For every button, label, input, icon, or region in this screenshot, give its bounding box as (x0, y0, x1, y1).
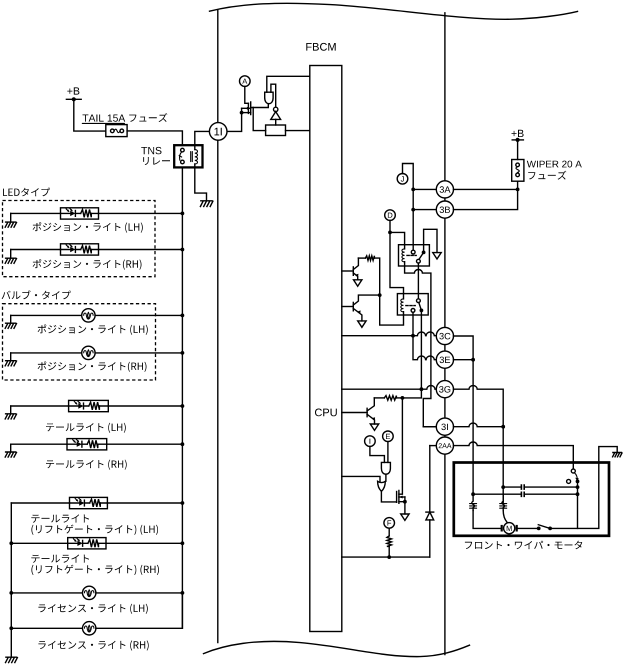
front wiper motor box (454, 463, 609, 536)
LED lamp tail light (RH) (67, 439, 107, 450)
wire node J to relay K1 contact (403, 164, 414, 245)
connector 1I (209, 123, 227, 141)
bulb position light (LH) (82, 309, 95, 322)
wire license LH to bus (96, 592, 182, 594)
junction 3I-503 (501, 425, 505, 429)
wire left bus to liftgate RH lamp (11, 542, 67, 544)
wire FBCM bottom to diode (342, 556, 430, 558)
capacitor C2 wire (473, 493, 577, 495)
TNS relay label (141, 147, 161, 154)
MOSFET Q1 channel (250, 102, 252, 115)
bulb position light (RH) (82, 346, 95, 359)
wire R3 to 3G junction (402, 389, 421, 398)
LED lamp position light (RH) (61, 244, 99, 255)
junction J-line at 3B (411, 208, 415, 212)
relay K1 coil (404, 245, 406, 249)
LED lamp position light (LH) (61, 208, 99, 219)
wire node I to AND gate (370, 446, 385, 462)
junction left bus license RH (9, 626, 13, 630)
wire FBCM to 3C (342, 332, 437, 336)
wire K1 armature to relay K2 contact (417, 263, 419, 299)
wire liftgate-license left bus (10, 503, 12, 657)
junction C2-473 (471, 492, 475, 496)
WIPER 20A fuse label (527, 161, 582, 168)
wire TAIL fuse to TNS relay switch (127, 131, 182, 145)
relay K2 fixed contact (411, 309, 415, 313)
fuse WIPER 20A (512, 160, 524, 182)
choke L1 (470, 504, 477, 509)
junction Q2-Q3 collectors (378, 293, 382, 297)
junction on lamp bus (181, 351, 185, 355)
relay K2 armature (419, 303, 422, 311)
node E (383, 431, 394, 442)
park switch open contact (567, 479, 571, 483)
resistor R4 (387, 536, 392, 547)
capacitor C1 (521, 484, 524, 490)
TAIL 15A fuse label (83, 115, 126, 122)
module ground at Q4 (370, 424, 378, 430)
resistor R3 (374, 397, 384, 399)
wire node A to MOSFET Q1 gate (245, 86, 249, 103)
junction R3-drain (401, 396, 405, 400)
wire ground to LED LH (11, 212, 61, 214)
wire U1 input from FBCM (267, 76, 310, 92)
connector 3I (436, 418, 453, 435)
label position bulb (RH) (38, 361, 147, 372)
bulb position lamps dashed box (3, 304, 156, 380)
relay TNS box (174, 145, 202, 167)
wire ground to tail RH (11, 443, 67, 445)
wire Q1 drain to driver gate (251, 104, 269, 108)
capacitor C1 wire (503, 486, 577, 488)
bulb license light (RH) (83, 622, 96, 635)
wire Q1 source to connector 1I (227, 108, 241, 131)
CPU label (315, 409, 337, 417)
label position light (LH) (33, 222, 143, 233)
junction left bus license LH (9, 591, 13, 595)
wire D to relay K2 coil (390, 232, 404, 293)
wire K1 common to module ground (424, 229, 437, 252)
junction park-cap2 (576, 492, 580, 496)
node F (384, 518, 395, 529)
label tail light liftgate RH line1 (31, 555, 89, 563)
wire LED RH to bus (99, 249, 183, 251)
park switch common contact (571, 469, 575, 473)
junction left bus liftgate RH (9, 541, 13, 545)
wire node E to AND gate (387, 442, 389, 463)
MOSFET Q5 body arrow (399, 496, 405, 498)
wire ground to tail LH (11, 405, 69, 407)
relay K2 box (397, 294, 428, 315)
wire license RH to bus (96, 593, 182, 628)
wire liftgate RH to bus (106, 542, 182, 544)
TNS relay coil (191, 152, 193, 162)
wire FBCM to 3G (342, 386, 437, 390)
wire 3I to 503-line (454, 423, 504, 427)
junction park-cap1 (576, 485, 580, 489)
module ground at Q3 (358, 321, 366, 327)
ground left lamp bus (6, 657, 18, 662)
transistor Q3 (352, 302, 354, 310)
fuse TAIL 15A (106, 125, 127, 137)
wire node D down (389, 220, 391, 232)
wire K1 coil to 3I (long) (405, 266, 437, 427)
diode D1 (429, 520, 431, 557)
wire 3E to 473-line (454, 359, 474, 361)
wire TNS coil to connector 1I (195, 131, 210, 145)
connector 3B (436, 201, 453, 218)
FBCM module box (310, 66, 342, 632)
motor M1 (504, 523, 515, 534)
relay K1 fixed contact (412, 245, 414, 251)
wire ground to bulb LH (11, 314, 82, 316)
wire motor to run contact (518, 527, 539, 529)
choke L2 (500, 504, 507, 509)
wire 3G to motor (down at 503) (454, 386, 504, 503)
LED lamp tail light (LH) (69, 400, 109, 411)
node A (240, 76, 251, 87)
wire LED LH to bus (99, 212, 183, 214)
inverter U2 (274, 107, 278, 111)
MOSFET Q5 gate bar (396, 492, 398, 503)
wire ground to bulb RH (11, 352, 82, 354)
ground position light LED LH (10, 213, 12, 222)
wire bulb LH to bus (95, 314, 182, 316)
label license light (RH) (38, 640, 148, 650)
wire choke L2 to motor (503, 510, 507, 522)
MOSFET Q5 drain wire (399, 398, 403, 494)
wire left bus to license LH bulb (11, 592, 82, 594)
label bulb type (2, 290, 71, 299)
module ground at Q5 (401, 514, 409, 520)
wire K2 fixed contact to 3C and 3E (413, 312, 436, 359)
wire U3 output to OR gate (385, 474, 387, 481)
MOSFET Q1 body arrow (242, 107, 251, 109)
wire 3A to J-line (413, 188, 436, 190)
label position bulb (LH) (38, 324, 148, 335)
junction on lamp bus (181, 314, 185, 318)
junction on lamp bus (181, 404, 185, 408)
front wiper motor label (465, 541, 582, 550)
driver gate U1 (265, 92, 273, 104)
wire tail LH to bus (108, 405, 182, 407)
junction at 3G (420, 387, 424, 391)
junction K2 contact at 3C (411, 334, 415, 338)
ground position bulb RH (10, 353, 12, 361)
relay K1 common contact (422, 251, 426, 255)
wire K2 coil to transistor junction (380, 295, 404, 325)
wire 3B to J-line (413, 209, 436, 211)
AND gate U3 (381, 462, 390, 474)
resistor R1 (266, 125, 286, 136)
connector 3A (436, 181, 453, 198)
junction on lamp bus (181, 212, 185, 216)
wire TNS coil to ground (195, 167, 207, 200)
junction on lamp bus (181, 248, 185, 252)
OR gate U4 (378, 481, 386, 491)
module ground at Q2 (354, 280, 362, 286)
connector 2AA (436, 437, 453, 454)
ground position light LED RH (10, 250, 12, 259)
run contact dots (537, 527, 541, 531)
wire R4 to bottom wire (388, 546, 390, 557)
wire left bus to license RH bulb (11, 627, 82, 629)
junction on lamp bus (181, 442, 185, 446)
wire 3A to fuse junction (454, 188, 518, 190)
wire WIPER fuse to 3A wire (517, 181, 519, 189)
ground position bulb LH (10, 315, 12, 323)
relay K1 dashed link (407, 254, 416, 256)
relay K2 dashed link (406, 305, 415, 307)
wire D to relay K1 coil (390, 232, 405, 244)
connector 3G (436, 381, 453, 398)
wire choke L1 to motor (473, 510, 501, 528)
wire lamp supply bus (181, 167, 183, 628)
wire bulb RH to bus (95, 352, 182, 354)
junction 3E-473 (471, 358, 475, 362)
label tail light liftgate LH line1 (31, 514, 89, 522)
LED lamp tail light liftgate (RH) (68, 538, 106, 549)
park switch armature (574, 473, 577, 482)
wire U1 input from inverter U2 (271, 84, 276, 107)
junction R4 on bottom wire (387, 555, 391, 559)
junction Q5 source-body (403, 500, 407, 504)
node J (397, 174, 408, 185)
MOSFET Q5 source stub (399, 497, 405, 514)
resistor R2 (358, 257, 365, 259)
bulb license light (LH) (83, 586, 96, 599)
park switch moving contact junction (576, 480, 580, 484)
transistor Q4 base wire (342, 412, 367, 414)
TNS relay switch contacts (181, 148, 185, 152)
torn page top wave (210, 3, 578, 19)
connector 3E (436, 351, 453, 368)
MOSFET Q1 gate bar (247, 103, 249, 113)
junction fuse-3A (516, 188, 520, 192)
torn page bottom wave (204, 641, 470, 656)
run contact blade (538, 525, 550, 529)
label tail light (RH) (46, 460, 127, 470)
junction on lamp bus (181, 591, 185, 595)
LED position lamps dashed box (3, 201, 156, 277)
ground tail light RH (10, 444, 12, 452)
+B supply terminal (wiper) (512, 130, 524, 137)
wire 2AA to park switch (454, 442, 574, 469)
wire diode to 2AA (430, 445, 437, 447)
transistor Q3 base wire (342, 306, 354, 308)
wire liftgate LH to bus (107, 502, 182, 504)
FBCM label (306, 43, 335, 51)
junction on lamp bus (181, 541, 185, 545)
node I (365, 436, 376, 447)
label license light (LH) (38, 604, 147, 614)
ground tail light LH (10, 406, 12, 414)
junction C1-503 (501, 485, 505, 489)
transistor Q4 (366, 408, 368, 416)
relay K2 coil (403, 294, 405, 299)
wire 3I to junction line (423, 426, 436, 428)
relay K1 box (399, 245, 430, 266)
MOSFET Q5 channel (398, 491, 400, 504)
label LED type (3, 188, 50, 197)
wire ground to LED RH (11, 249, 61, 251)
junction on lamp bus (181, 501, 185, 505)
wire 3C to motor (down at 473) (454, 336, 474, 494)
wire K2 armature to 3G junction (420, 312, 422, 389)
connector 3C (436, 327, 453, 344)
capacitor C2 (521, 492, 524, 498)
transistor Q2 (352, 267, 354, 275)
wire +B to WIPER fuse (517, 140, 519, 160)
junction D branch (388, 231, 392, 235)
relay K2 top contact (417, 299, 421, 303)
node D (385, 210, 396, 221)
label tail light liftgate RH line2 (31, 565, 159, 575)
ground wiper motor (613, 453, 623, 457)
torn section right edge wire (444, 13, 446, 655)
wire Q1 drain branch to resistor R1 (253, 108, 265, 131)
torn section left edge wire (217, 10, 219, 642)
transistor Q2 base wire (342, 270, 354, 272)
label tail light liftgate LH line2 (31, 525, 158, 535)
relay K1 armature contact (417, 259, 421, 263)
wire node F to resistor R4 (388, 528, 390, 536)
MOSFET Q1 source stub (242, 112, 251, 114)
wire left bus to liftgate LH lamp (11, 502, 69, 504)
junction Q1 source-body (240, 111, 244, 115)
label tail light (LH) (46, 423, 126, 433)
module ground at K1 (433, 253, 441, 259)
wire park switch down (577, 481, 579, 528)
junction J-line at 3A (411, 188, 415, 192)
wire tail RH to bus (107, 443, 183, 445)
motor M1 brushes (501, 525, 503, 532)
LED lamp tail light liftgate (LH) (70, 497, 108, 508)
wire U4 output to MOSFET Q5 gate (381, 491, 396, 502)
wire 3B to fuse junction (454, 189, 518, 209)
+B supply terminal (left) (67, 87, 79, 94)
label position light (RH) (33, 259, 142, 270)
wire run contact to motor ground (550, 447, 617, 529)
wire FBCM to OR gate input (342, 476, 380, 481)
wire resistor R1 to FBCM (286, 130, 310, 132)
wire +B to TAIL fuse (74, 99, 106, 131)
ground TNS relay (200, 201, 213, 207)
